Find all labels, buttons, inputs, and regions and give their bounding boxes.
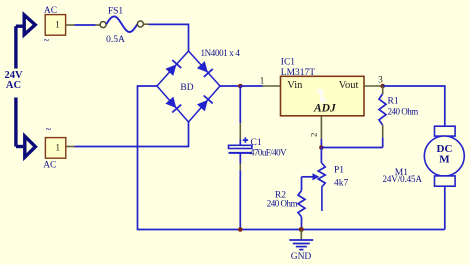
svg-text:1: 1 <box>55 19 60 29</box>
resistor R2 lead bottom <box>301 217 303 230</box>
diode D3 (left to bottom) <box>166 97 176 107</box>
fuse FS1 left terminal circle <box>100 22 106 28</box>
pin stub AC bottom <box>66 146 75 148</box>
svg-text:AC: AC <box>43 161 56 171</box>
svg-text:1: 1 <box>260 76 265 86</box>
bottom rail wire <box>240 229 444 231</box>
svg-text:Vout: Vout <box>339 80 359 91</box>
svg-text:470uF/40V: 470uF/40V <box>250 148 287 158</box>
capacitor C1 bottom plate <box>229 152 252 154</box>
pin stub AC top <box>66 24 75 26</box>
pin 3 stub IC1 <box>364 85 383 87</box>
node C1 bottom <box>238 227 243 232</box>
svg-text:M: M <box>439 153 450 165</box>
pin 2 stub ADJ <box>320 116 322 139</box>
svg-text:FS1: FS1 <box>108 7 124 17</box>
motor M1 bottom terminal <box>435 176 456 186</box>
motor M1 top terminal <box>435 126 456 136</box>
svg-text:IC1: IC1 <box>281 58 296 68</box>
wire ADJ down <box>320 139 322 148</box>
capacitor C1 lead top <box>239 86 241 123</box>
wire bridge right to C1 node <box>220 85 240 87</box>
resistor R1 lead top <box>382 86 384 94</box>
svg-text:~: ~ <box>46 124 52 135</box>
wire bridge left to bottom rail <box>138 86 241 230</box>
regulator IC1 LM317T body <box>281 76 365 116</box>
diode D1 (left to top) <box>166 65 176 75</box>
wire motor bottom <box>444 186 446 229</box>
wire Vout to motor <box>383 86 445 126</box>
capacitor C1 plus sign <box>243 137 248 142</box>
svg-text:1N4001 x 4: 1N4001 x 4 <box>201 48 241 58</box>
wire ADJ junction down to P1 <box>320 148 322 164</box>
white artifact blob <box>318 89 327 103</box>
potentiometer P1 body <box>318 163 325 187</box>
motor M1 body <box>424 136 464 176</box>
input port arrow top <box>16 25 23 28</box>
svg-text:4k7: 4k7 <box>334 179 349 189</box>
svg-text:C1: C1 <box>251 138 262 148</box>
svg-text:ADJ: ADJ <box>313 103 337 115</box>
pin 1 stub IC1 <box>263 85 281 87</box>
capacitor C1 lead bottom <box>239 153 241 164</box>
ground stub <box>300 230 302 240</box>
svg-text:Vin: Vin <box>287 80 303 91</box>
wire AC bottom to bridge bottom <box>75 122 189 147</box>
resistor R1 body <box>379 94 386 125</box>
svg-text:3: 3 <box>378 75 383 85</box>
diode D4 (bottom to right) <box>198 100 208 110</box>
svg-text:~: ~ <box>44 35 50 46</box>
svg-text:R1: R1 <box>388 97 399 107</box>
potentiometer P1 wiper arrow <box>302 176 314 178</box>
svg-text:BD: BD <box>180 83 193 93</box>
fuse pin stub left <box>96 24 101 26</box>
ground symbol <box>289 239 313 241</box>
node ground junction <box>299 227 304 232</box>
terminal AC bottom box pin 1 <box>45 138 65 159</box>
terminal AC top box pin 1 <box>45 15 65 36</box>
fuse FS1 element <box>106 16 137 32</box>
svg-text:1: 1 <box>55 142 60 152</box>
fuse FS1 right terminal circle <box>137 21 143 27</box>
svg-text:0.5A: 0.5A <box>106 35 125 45</box>
fuse pin stub right <box>144 23 149 25</box>
potentiometer P1 bottom stub <box>321 187 323 211</box>
node C1 tap <box>238 84 243 89</box>
svg-text:2: 2 <box>308 133 318 137</box>
wire fuse to bridge top <box>149 24 189 51</box>
wire vertical 24V feed <box>14 26 17 68</box>
node ADJ junction <box>319 145 324 150</box>
wire AC top to fuse <box>75 24 96 26</box>
diode D2 (top to right) <box>198 62 208 72</box>
wire wiper to R2 <box>301 177 303 191</box>
svg-text:24V/0.45A: 24V/0.45A <box>383 174 423 184</box>
svg-text:240 Ohm: 240 Ohm <box>388 106 419 116</box>
svg-text:240 Ohm: 240 Ohm <box>267 198 298 208</box>
input port arrow bottom <box>16 145 23 148</box>
resistor R2 body <box>298 191 305 217</box>
bridge BD outline <box>157 51 220 122</box>
svg-text:GND: GND <box>291 252 312 262</box>
wire ADJ to R1 bottom <box>321 147 382 149</box>
capacitor C1 top plate <box>229 145 252 148</box>
svg-text:P1: P1 <box>334 166 344 176</box>
node Vout junction <box>380 84 385 89</box>
svg-text:AC: AC <box>6 80 21 91</box>
wire C1 node to IC pin 1 <box>240 85 262 87</box>
resistor R1 lead bottom <box>382 125 384 137</box>
